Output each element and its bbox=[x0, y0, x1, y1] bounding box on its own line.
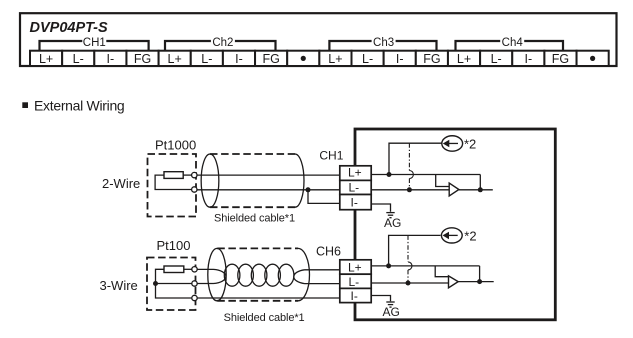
svg-text:L+: L+ bbox=[328, 52, 342, 66]
junction output node (ch1) bbox=[478, 187, 483, 192]
dash-dot shield drain (ch6) bbox=[407, 235, 409, 262]
svg-text:L+: L+ bbox=[39, 52, 53, 66]
node sensor terminal 1 bbox=[192, 267, 197, 272]
ground AG (ch6) bbox=[386, 302, 394, 307]
hop over L+ wire (ch6) bbox=[408, 262, 412, 270]
bracket Ch2 bbox=[165, 36, 276, 51]
bracket Ch3 bbox=[329, 36, 436, 51]
wire resistor right lead bbox=[183, 174, 191, 176]
shielded cable dashed bottom (2-wire) bbox=[210, 206, 295, 208]
terminal block CH6 bbox=[340, 260, 371, 303]
wire amp upper input stub (ch6) bbox=[435, 266, 448, 277]
shielded cable right end arc (3-wire) bbox=[298, 248, 309, 300]
svg-text:L+: L+ bbox=[348, 166, 362, 180]
terminal spare dot 1 bbox=[287, 51, 319, 66]
svg-text:2-Wire: 2-Wire bbox=[102, 176, 140, 191]
svg-text:I-: I- bbox=[351, 196, 358, 210]
wire resistor left lead down to lower terminal bbox=[155, 175, 192, 189]
svg-text:DVP04PT-S: DVP04PT-S bbox=[30, 20, 108, 36]
twisted pair entry arc bbox=[214, 269, 226, 283]
svg-text:Ch3: Ch3 bbox=[373, 37, 394, 49]
bracket Ch4 bbox=[456, 36, 564, 51]
coil loop 3 bbox=[251, 264, 267, 286]
svg-text:Shielded cable*1: Shielded cable*1 bbox=[224, 312, 305, 324]
wire I- lead (3-wire) bbox=[197, 297, 340, 299]
svg-text:3-Wire: 3-Wire bbox=[100, 278, 138, 293]
junction on L+ wire (ch6) bbox=[386, 263, 391, 268]
bracket CH1 bbox=[40, 36, 149, 51]
dash-dot shield drain lower (ch1) bbox=[408, 179, 410, 190]
terminal L- (Ch2) bbox=[191, 51, 223, 66]
module main box bbox=[355, 129, 555, 320]
dash-dot shield drain (ch1) bbox=[408, 143, 410, 170]
shielded cable right end arc (2-wire) bbox=[295, 154, 304, 207]
wire L- lead left (3-wire) bbox=[197, 283, 213, 285]
current source *2 (ch6) bbox=[441, 228, 462, 243]
shielded cable ellipse (3-wire) bbox=[208, 248, 226, 300]
wire L+ lead left (3-wire) bbox=[197, 268, 213, 270]
op-amp buffer (ch1) bbox=[449, 183, 459, 196]
svg-text:External Wiring: External Wiring bbox=[34, 97, 124, 113]
shielded cable dashed bottom (3-wire) bbox=[217, 300, 298, 302]
wire I- to AG (ch6) bbox=[371, 296, 390, 302]
op-amp buffer (ch6) bbox=[449, 276, 459, 288]
svg-text:L-: L- bbox=[201, 52, 212, 66]
svg-text:Shielded cable*1: Shielded cable*1 bbox=[214, 213, 295, 225]
node sensor terminal bottom bbox=[192, 187, 197, 192]
terminal I- (Ch2) bbox=[223, 51, 255, 66]
terminal L- (Ch4) bbox=[480, 51, 512, 66]
wire sensor mid lead bbox=[156, 283, 192, 285]
twisted pair exit arc bbox=[294, 270, 305, 284]
svg-text:FG: FG bbox=[552, 52, 569, 66]
junction output node (ch6) bbox=[477, 279, 482, 284]
terminal I- (Ch4) bbox=[512, 51, 544, 66]
svg-text:FG: FG bbox=[423, 52, 440, 66]
shielded cable ellipse (2-wire) bbox=[201, 154, 219, 207]
terminal L+ (Ch4) bbox=[448, 51, 480, 66]
shielded cable dashed top (3-wire) bbox=[217, 247, 298, 249]
svg-text:Pt100: Pt100 bbox=[157, 238, 191, 253]
wire L- lead right (3-wire) bbox=[305, 283, 340, 285]
terminal I- (CH1) bbox=[94, 51, 126, 66]
wire jumper L- to I- bbox=[308, 190, 340, 204]
svg-text:I-: I- bbox=[525, 52, 533, 66]
wire resistor left lead (3-wire) bbox=[156, 269, 192, 298]
terminal FG (Ch3) bbox=[416, 51, 448, 66]
coil loop 4 bbox=[265, 264, 281, 286]
wire I- to AG (ch1) bbox=[371, 204, 390, 212]
coil loop 2 bbox=[238, 264, 254, 286]
terminal I- (Ch3) bbox=[384, 51, 416, 66]
coil loop 5 bbox=[278, 264, 294, 286]
wire L+ internal (ch6) bbox=[371, 265, 479, 267]
svg-text:L+: L+ bbox=[168, 52, 182, 66]
wire amp output (ch1) bbox=[459, 189, 493, 191]
terminal FG (CH1) bbox=[126, 51, 158, 66]
junction on L- wire (ch1) bbox=[407, 187, 412, 192]
wire L- lead (2-wire) bbox=[197, 189, 340, 191]
svg-text:*2: *2 bbox=[464, 229, 476, 244]
svg-text:I-: I- bbox=[107, 52, 115, 66]
wire amp upper input stub (ch1) bbox=[436, 175, 450, 187]
svg-text:L-: L- bbox=[349, 180, 360, 194]
ground AG (ch1) bbox=[386, 213, 394, 218]
svg-text:CH6: CH6 bbox=[316, 245, 341, 259]
resistor RTD element (2-wire) bbox=[164, 172, 183, 179]
svg-text:L+: L+ bbox=[457, 52, 471, 66]
svg-text:CH1: CH1 bbox=[83, 37, 106, 49]
junction sensor mid lead bbox=[153, 281, 158, 286]
terminal FG (Ch2) bbox=[255, 51, 287, 66]
module outline box DVP04PT-S bbox=[20, 13, 617, 66]
wire riser to current source (ch1) bbox=[389, 143, 442, 174]
sensor dashed box Pt1000 bbox=[148, 154, 197, 217]
terminal FG (Ch4) bbox=[544, 51, 576, 66]
svg-text:AG: AG bbox=[383, 305, 400, 319]
hop over L+ wire (ch1) bbox=[409, 171, 413, 179]
svg-text:L-: L- bbox=[349, 275, 360, 289]
svg-text:FG: FG bbox=[134, 52, 151, 66]
resistor RTD element (3-wire) bbox=[164, 266, 184, 273]
svg-text:I-: I- bbox=[351, 289, 358, 303]
current source *2 (ch1) bbox=[442, 136, 463, 151]
sensor dashed box Pt100 bbox=[147, 258, 196, 311]
junction on L- wire (ch6) bbox=[406, 281, 411, 286]
wire L+ to output corner (ch6) bbox=[479, 266, 481, 282]
terminal L- (CH1) bbox=[62, 51, 94, 66]
wire resistor right lead (3-wire) bbox=[184, 268, 192, 270]
wire amp output (ch6) bbox=[458, 281, 494, 283]
svg-text:AG: AG bbox=[384, 216, 401, 230]
wire L+ lead right (3-wire) bbox=[305, 269, 340, 271]
coil loop 1 bbox=[224, 264, 240, 286]
svg-text:CH1: CH1 bbox=[319, 148, 343, 162]
svg-text:L-: L- bbox=[362, 52, 373, 66]
wire L+ internal (ch1) bbox=[371, 174, 480, 176]
svg-text:Ch2: Ch2 bbox=[212, 37, 233, 49]
svg-text:L+: L+ bbox=[348, 261, 362, 275]
terminal block CH1 bbox=[340, 166, 371, 210]
svg-text:Pt1000: Pt1000 bbox=[155, 138, 196, 153]
svg-text:I-: I- bbox=[396, 52, 404, 66]
dash-dot shield drain lower (ch6) bbox=[407, 270, 409, 283]
svg-text:I-: I- bbox=[235, 52, 243, 66]
svg-text:*2: *2 bbox=[464, 137, 476, 152]
node sensor terminal 3 bbox=[192, 295, 197, 300]
terminal spare dot 2 bbox=[577, 51, 609, 66]
svg-text:L-: L- bbox=[73, 52, 84, 66]
wire L- internal (ch6) bbox=[371, 282, 448, 284]
wire L+ to output corner (ch1) bbox=[479, 175, 481, 190]
wire L- internal (ch1) bbox=[371, 189, 449, 191]
heading External Wiring bbox=[22, 97, 124, 113]
terminal L- (Ch3) bbox=[352, 51, 384, 66]
svg-text:L-: L- bbox=[491, 52, 502, 66]
svg-text:Ch4: Ch4 bbox=[502, 37, 524, 49]
terminal L+ (Ch2) bbox=[159, 51, 191, 66]
terminal L+ (CH1) bbox=[30, 51, 62, 66]
node sensor terminal top bbox=[192, 172, 197, 177]
svg-text:FG: FG bbox=[262, 52, 279, 66]
terminal L+ (Ch3) bbox=[319, 51, 351, 66]
shielded cable dashed top (2-wire) bbox=[210, 153, 295, 155]
wire L+ lead (2-wire) bbox=[197, 174, 340, 176]
junction on L+ wire (ch1) bbox=[387, 172, 392, 177]
wire riser to current source (ch6) bbox=[389, 235, 441, 266]
node sensor terminal 2 bbox=[192, 281, 197, 286]
junction shield to I- bbox=[306, 187, 311, 192]
